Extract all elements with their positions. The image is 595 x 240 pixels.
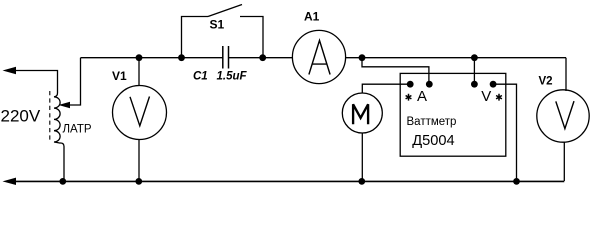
wire: main line to capacitor left plate: [182, 57, 223, 59]
arrowhead: 220V lower feed: [3, 178, 17, 185]
switch S1 right contact: [240, 17, 263, 58]
wire: M bottom lead: [361, 133, 363, 181]
terminal: wattmeter *A left: [407, 81, 414, 88]
label: asterisk of V*: [496, 94, 502, 101]
capacitor C1 left plate: [222, 46, 224, 69]
node: transformer bottom junction: [59, 178, 66, 185]
transformer T1 ЛАТР winding: [54, 93, 64, 181]
switch S1 branch left riser: [182, 17, 209, 58]
arrowhead: 220V upper feed: [3, 67, 17, 74]
wattmeter box outline: [400, 73, 506, 156]
voltmeter V1 glyph V: [130, 97, 150, 126]
svg-text:ЛАТР: ЛАТР: [63, 124, 92, 136]
wire: top main line V1 node to switch node: [139, 57, 182, 59]
wire: junction to ammeter A1: [263, 57, 293, 59]
svg-text:S1: S1: [210, 18, 225, 32]
wire: drop from current junction: [362, 58, 429, 84]
wire: right drop to V2 top: [565, 58, 567, 91]
voltmeter V2 body: [537, 90, 589, 142]
ammeter A1 glyph A: [309, 40, 330, 74]
wire: bottom return bus: [14, 180, 564, 182]
capacitor C1 right plate: [228, 46, 230, 69]
svg-text:A: A: [417, 88, 427, 105]
node: wattmeter current-path junction: [359, 54, 366, 61]
wire: 220V upper feed line: [14, 71, 58, 94]
wire: M top lead to wattmeter A terminal: [362, 84, 410, 93]
svg-text:1.5uF: 1.5uF: [217, 71, 248, 83]
transformer T1 core (dashed line): [49, 91, 51, 142]
node: switch/capacitor left junction: [178, 54, 185, 61]
terminal: wattmeter V left: [471, 81, 478, 88]
svg-text:Ваттметр: Ваттметр: [407, 116, 457, 128]
svg-text:V2: V2: [539, 76, 553, 88]
wire: V1 bottom lead: [138, 139, 140, 181]
node: wattmeter return junction: [513, 178, 520, 185]
voltmeter V2 glyph V: [556, 101, 574, 129]
wire: V1 top lead: [138, 58, 140, 86]
node: V1 bottom junction: [135, 178, 142, 185]
wire: variac wiper tap: [68, 58, 81, 105]
arrowhead: variac wiper: [59, 102, 71, 108]
label: asterisk of *A: [406, 94, 412, 101]
motor meter M body: [342, 93, 382, 133]
wire: A1 output to V2 drop: [346, 57, 566, 59]
node: M bottom junction: [358, 178, 365, 185]
ammeter A1 body: [292, 30, 345, 83]
svg-text:220V: 220V: [1, 107, 41, 126]
wire: V2 bottom lead: [563, 142, 565, 181]
svg-text:Д5004: Д5004: [412, 133, 454, 149]
terminal: wattmeter A right: [426, 81, 433, 88]
wire: V* terminal to bottom bus: [493, 84, 516, 181]
node: V1 top junction: [136, 54, 143, 61]
node: main line V junction: [471, 54, 478, 61]
node: switch/capacitor right junction: [259, 54, 266, 61]
wire: drop to wattmeter voltage terminal: [473, 58, 475, 84]
svg-text:C1: C1: [193, 71, 208, 83]
svg-text:A1: A1: [304, 10, 320, 24]
svg-text:V: V: [481, 88, 491, 105]
svg-text:V1: V1: [112, 69, 127, 83]
motor meter M glyph: [353, 104, 368, 124]
wire: capacitor right plate to right junction: [229, 57, 264, 59]
voltmeter V1 body: [113, 86, 167, 140]
switch S1 blade: [208, 5, 242, 17]
wire: top main line from tap to V1 node: [81, 57, 140, 59]
terminal: wattmeter V* right: [490, 81, 497, 88]
